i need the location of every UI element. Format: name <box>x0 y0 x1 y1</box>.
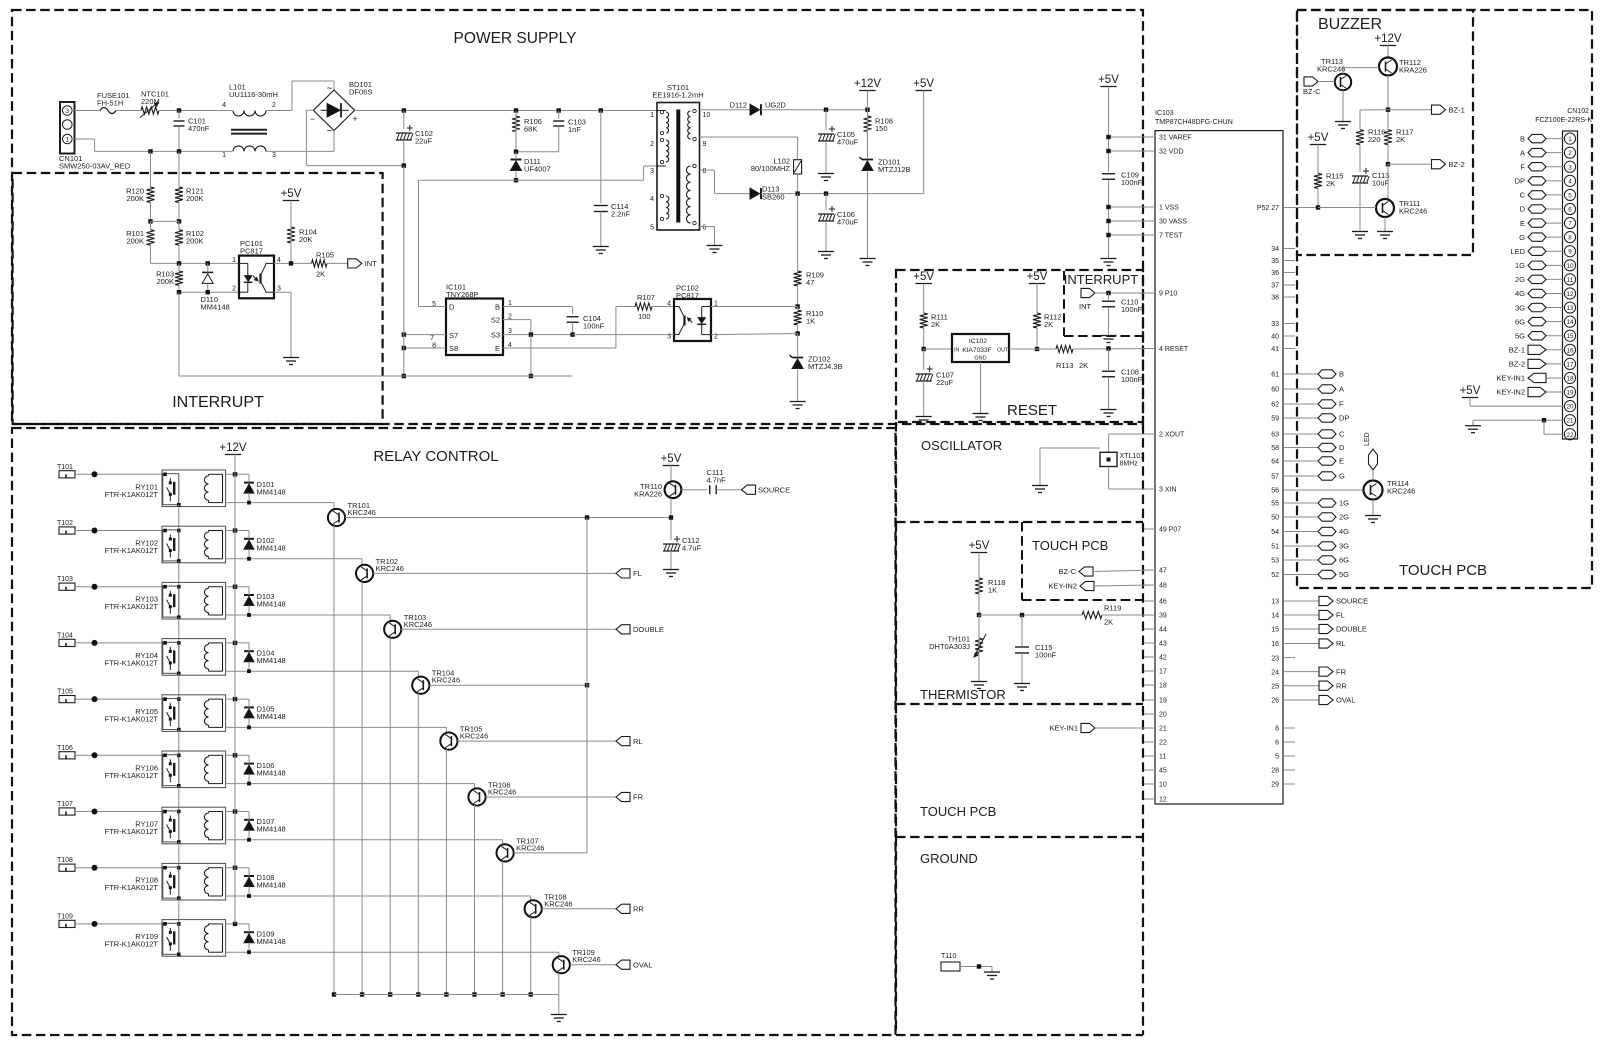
svg-text:IN: IN <box>954 348 959 354</box>
node C110 top <box>1106 291 1110 295</box>
svg-text:59: 59 <box>1271 416 1279 423</box>
svg-text:47: 47 <box>806 278 814 287</box>
svg-text:46: 46 <box>1159 599 1167 606</box>
svg-text:MM4148: MM4148 <box>257 656 286 665</box>
svg-text:OSCILLATOR: OSCILLATOR <box>921 438 1002 453</box>
wire relay chain T101 <box>178 505 180 531</box>
SOURCE flag <box>742 485 756 494</box>
svg-text:INTERRUPT: INTERRUPT <box>172 394 264 411</box>
resistor R116 <box>1356 130 1364 145</box>
svg-text:A: A <box>1520 148 1525 157</box>
node S7 <box>402 332 406 336</box>
svg-text:CN102: CN102 <box>1567 108 1589 115</box>
svg-text:40: 40 <box>1271 334 1279 341</box>
svg-text:2K: 2K <box>1079 361 1088 370</box>
svg-text:A: A <box>1339 385 1344 394</box>
svg-text:4G: 4G <box>1339 527 1349 536</box>
svg-text:100nF: 100nF <box>1035 651 1057 660</box>
svg-text:KRA226: KRA226 <box>634 490 662 499</box>
svg-text:FTR-K1AK012T: FTR-K1AK012T <box>105 490 159 499</box>
svg-text:39: 39 <box>1159 613 1167 620</box>
svg-text:3G: 3G <box>1515 303 1525 312</box>
svg-text:G: G <box>1339 472 1345 481</box>
wire R111 to IC102 <box>924 348 952 350</box>
wire ST101 pin6 to ground <box>700 226 715 228</box>
svg-text:56: 56 <box>1271 488 1279 495</box>
wire relay RY107 to +12V bus <box>226 811 249 813</box>
wire VAREF <box>1109 136 1156 138</box>
svg-text:57: 57 <box>1271 474 1279 481</box>
svg-text:150: 150 <box>875 124 888 133</box>
diode D108 <box>244 875 254 877</box>
svg-text:B: B <box>1339 370 1344 379</box>
node C106 top <box>824 191 828 195</box>
svg-text:37: 37 <box>1271 283 1279 290</box>
capacitor C107 <box>923 349 925 370</box>
svg-text:THERMISTOR: THERMISTOR <box>920 687 1006 702</box>
svg-text:MM4148: MM4148 <box>257 881 286 890</box>
wire TR111 base <box>1318 207 1376 209</box>
svg-text:T110: T110 <box>941 953 957 960</box>
svg-text:50: 50 <box>1271 515 1279 522</box>
RL flag <box>616 737 630 746</box>
KEY-IN1 flag <box>1081 723 1095 732</box>
node C115 top <box>1020 613 1024 617</box>
transistor TR109 KRC246 <box>553 956 570 973</box>
svg-text:+5V: +5V <box>1027 271 1048 283</box>
svg-text:10: 10 <box>1159 782 1167 789</box>
wire relay chain T103 <box>178 617 180 643</box>
svg-text:LED: LED <box>1510 247 1525 256</box>
resistor R115 <box>1314 173 1322 188</box>
ground CN102 <box>1472 420 1474 426</box>
svg-text:44: 44 <box>1159 627 1167 634</box>
capacitor C103 <box>558 111 560 120</box>
crystal XTL101 8MHz <box>1100 452 1117 466</box>
transistor TR113 KRC246 <box>1335 74 1351 90</box>
svg-text:1G: 1G <box>1339 499 1349 508</box>
interrupt section box <box>13 173 383 424</box>
touch pcb small box <box>1021 522 1023 600</box>
svg-text:RL: RL <box>633 737 643 746</box>
svg-text:2G: 2G <box>1515 275 1525 284</box>
ground section box <box>895 837 897 1035</box>
svg-text:RR: RR <box>633 905 644 914</box>
diode D105 <box>244 706 254 708</box>
svg-text:100: 100 <box>638 312 651 321</box>
node S2-S3 <box>529 332 533 336</box>
svg-text:−: − <box>310 114 315 124</box>
wire T105 to relay <box>75 698 162 700</box>
svg-text:T102: T102 <box>57 520 73 527</box>
svg-text:E: E <box>1520 219 1525 228</box>
CN102 pin 14 6G <box>1564 316 1575 327</box>
svg-text:KRC246: KRC246 <box>1317 65 1345 74</box>
svg-text:51: 51 <box>1271 544 1279 551</box>
svg-text:BZ-2: BZ-2 <box>1509 360 1525 369</box>
resistor R120 <box>150 151 152 187</box>
diode D109 <box>244 931 254 933</box>
ground C106 <box>825 246 827 252</box>
transistor TR102 KRC246 <box>356 565 373 582</box>
diode D103 <box>244 594 254 596</box>
svg-text:FTR-K1AK012T: FTR-K1AK012T <box>105 546 159 555</box>
svg-text:2: 2 <box>232 286 236 293</box>
node R120 top <box>148 149 152 153</box>
wire LED to TR114 <box>1372 470 1374 481</box>
wire TR103 base <box>401 628 616 630</box>
wire PC101 pin2 row <box>179 291 239 293</box>
wire bridge minus to return rail <box>306 109 313 111</box>
svg-text:2K: 2K <box>1044 320 1053 329</box>
svg-text:17: 17 <box>1159 669 1167 676</box>
wire TR111 emitter <box>1384 217 1386 226</box>
svg-text:FTR-K1AK012T: FTR-K1AK012T <box>105 602 159 611</box>
svg-text:FCZ100E-22RS-K: FCZ100E-22RS-K <box>1535 117 1592 124</box>
svg-text:FTR-K1AK012T: FTR-K1AK012T <box>105 827 159 836</box>
connector CN101 <box>60 102 75 154</box>
wire ST101 pin10 to D112 <box>700 109 751 111</box>
svg-text:G: G <box>1519 233 1525 242</box>
svg-text:32 VDD: 32 VDD <box>1159 149 1184 156</box>
svg-text:8MHz: 8MHz <box>1120 461 1139 468</box>
svg-text:FTR-K1AK012T: FTR-K1AK012T <box>105 939 159 948</box>
node D111 bottom <box>514 178 518 182</box>
svg-text:4: 4 <box>222 102 226 109</box>
svg-text:3: 3 <box>277 286 281 293</box>
svg-text:LED: LED <box>1364 432 1371 446</box>
node R121 top <box>177 149 181 153</box>
ground IC102 <box>980 408 982 414</box>
resistor R107 <box>616 306 635 308</box>
node R120-R101 <box>148 219 152 223</box>
wire fuse to NTC <box>116 110 141 112</box>
svg-text:S8: S8 <box>449 344 458 353</box>
svg-text:8: 8 <box>1275 726 1279 733</box>
svg-text:19: 19 <box>1159 698 1167 705</box>
svg-text:9: 9 <box>703 141 707 148</box>
svg-text:SMW250-03AV_RED: SMW250-03AV_RED <box>59 162 131 171</box>
svg-text:KRC246: KRC246 <box>432 676 460 685</box>
svg-text:IC102: IC102 <box>969 338 987 345</box>
CN102 pin 15 5G <box>1564 330 1575 341</box>
wire TR102 emitter <box>361 581 363 994</box>
svg-text:22uF: 22uF <box>415 137 433 146</box>
svg-text:24: 24 <box>1271 669 1279 676</box>
svg-text:5G: 5G <box>1515 331 1525 340</box>
ground TR114 <box>1372 510 1374 516</box>
svg-text:D: D <box>449 303 455 312</box>
svg-text:S3: S3 <box>491 331 500 340</box>
svg-text:21: 21 <box>1566 418 1574 425</box>
svg-text:~: ~ <box>327 126 333 137</box>
svg-text:10uF: 10uF <box>1372 179 1390 188</box>
svg-text:100nF: 100nF <box>583 322 605 331</box>
svg-text:FR: FR <box>1336 667 1347 676</box>
svg-text:48: 48 <box>1159 583 1167 590</box>
svg-text:B: B <box>1520 134 1525 143</box>
wire R105 to INT <box>327 262 348 264</box>
svg-text:9: 9 <box>1568 249 1572 256</box>
wire T103 to relay <box>75 586 162 588</box>
svg-text:3 XIN: 3 XIN <box>1159 487 1177 494</box>
resistor R102 <box>175 230 183 246</box>
node C101 top <box>177 108 181 112</box>
transistor TR111 KRC246 <box>1376 199 1394 217</box>
svg-text:KRC246: KRC246 <box>488 788 516 797</box>
CN102 pin 6 D <box>1564 203 1575 214</box>
wire interrupt to bottom rail <box>178 292 180 376</box>
node R111 bottom <box>922 347 926 351</box>
RR flag <box>616 904 630 913</box>
svg-text:26: 26 <box>1271 698 1279 705</box>
wire TR105 emitter <box>445 749 447 994</box>
svg-text:RR: RR <box>1336 681 1347 690</box>
svg-text:UU1116-30mH: UU1116-30mH <box>229 90 278 99</box>
svg-text:MM4148: MM4148 <box>257 600 286 609</box>
svg-text:F: F <box>1339 400 1344 409</box>
svg-text:+5V: +5V <box>661 453 682 465</box>
svg-text:FL: FL <box>1336 611 1345 620</box>
svg-text:38: 38 <box>1271 295 1279 302</box>
svg-text:1: 1 <box>1568 136 1572 143</box>
svg-text:2: 2 <box>650 141 654 148</box>
svg-text:DOUBLE: DOUBLE <box>633 625 664 634</box>
svg-text:RESET: RESET <box>1007 402 1057 419</box>
svg-text:T107: T107 <box>57 801 73 808</box>
node C103 top <box>557 108 561 112</box>
svg-text:53: 53 <box>1271 558 1279 565</box>
ground TH101 <box>978 676 980 682</box>
node R112 bottom <box>1035 347 1039 351</box>
svg-text:4: 4 <box>650 196 654 203</box>
wire R119 to IC103 <box>1102 614 1155 616</box>
svg-text:18: 18 <box>1159 683 1167 690</box>
svg-text:MM4148: MM4148 <box>201 303 230 312</box>
svg-text:42: 42 <box>1159 655 1167 662</box>
wire TR107 emitter <box>502 861 504 995</box>
capacitor C105 <box>825 110 827 130</box>
svg-text:1: 1 <box>65 137 69 144</box>
diode D110 <box>202 271 213 273</box>
wire KEY-IN2 to IC103 pin48 <box>1094 585 1155 586</box>
wire TR107 base <box>514 852 587 854</box>
touch pcb section box 2 <box>895 704 897 837</box>
resistor R104 <box>287 227 295 243</box>
svg-text:21: 21 <box>1159 726 1167 733</box>
node C105 top <box>824 108 828 112</box>
CN102 pin 21 <box>1564 415 1575 426</box>
interrupt sub box <box>1063 271 1065 336</box>
ground C114 <box>600 241 602 247</box>
svg-text:T103: T103 <box>57 576 73 583</box>
capacitor C102 <box>403 111 405 130</box>
svg-text:1G: 1G <box>1515 261 1525 270</box>
FL flag <box>616 569 630 578</box>
ground C115 <box>1021 678 1023 684</box>
transistor TR104 KRC246 <box>412 677 429 694</box>
CN102 pin 13 3G <box>1564 302 1575 313</box>
svg-text:C: C <box>1339 430 1345 439</box>
svg-text:220: 220 <box>1368 135 1381 144</box>
wire TR101 base <box>345 517 672 519</box>
svg-text:T105: T105 <box>57 689 73 696</box>
diode D102 <box>244 538 254 540</box>
svg-text:+5V: +5V <box>1098 74 1119 86</box>
svg-text:5G: 5G <box>1339 570 1349 579</box>
svg-text:E: E <box>495 344 500 353</box>
svg-text:3: 3 <box>65 108 69 115</box>
svg-text:3: 3 <box>650 168 654 175</box>
wire TR113 collector to TR112 base <box>1342 68 1344 74</box>
INT flag interrupt <box>348 259 362 268</box>
svg-text:S7: S7 <box>449 331 458 340</box>
DOUBLE flag <box>616 625 630 634</box>
node bottom rail mid <box>529 374 533 378</box>
svg-text:16: 16 <box>1566 347 1574 354</box>
wire IC101 S3 <box>503 334 573 336</box>
wire IC101 B to C104 <box>503 306 573 308</box>
wire bridge plus to main rail <box>355 109 357 111</box>
wire source drive bus <box>586 518 588 853</box>
CN102 pin 19 KEY-IN2 <box>1564 386 1575 397</box>
wire D103 to TR103 <box>226 614 391 616</box>
wire BZ-C to TR113 base <box>1318 81 1335 83</box>
wire D102 to TR102 <box>226 558 363 560</box>
node R102 bottom <box>177 261 181 265</box>
wire T102 to relay <box>75 530 162 532</box>
wire TR106 base <box>486 796 616 798</box>
svg-text:12: 12 <box>1566 291 1574 298</box>
svg-text:60: 60 <box>1271 387 1279 394</box>
wire IC101 E to R107 <box>503 347 616 349</box>
wire relay RY106 to +12V bus <box>226 754 249 756</box>
ground relay bus <box>334 994 559 996</box>
svg-text:470uF: 470uF <box>837 138 859 147</box>
CN102 pin 5 C <box>1564 189 1575 200</box>
CN102 pin 17 BZ-2 <box>1564 358 1575 369</box>
svg-text:22: 22 <box>1566 432 1574 439</box>
diode D111 <box>511 159 522 161</box>
wire relay chain T106 <box>178 786 180 812</box>
wire PC101 pin4 row <box>274 262 312 264</box>
svg-text:KIA7033F: KIA7033F <box>962 347 991 354</box>
node R110 bottom <box>795 331 799 335</box>
svg-text:4: 4 <box>1568 178 1572 185</box>
svg-text:12: 12 <box>1159 797 1167 804</box>
zener ZD102 <box>797 334 799 357</box>
svg-text:20: 20 <box>1566 404 1574 411</box>
wire PC102 pin1 <box>711 306 798 308</box>
svg-text:55: 55 <box>1271 501 1279 508</box>
wire relay chain T105 <box>178 730 180 756</box>
CN102 pin 7 E <box>1564 217 1575 228</box>
wire TR110 emitter <box>670 498 672 540</box>
thermistor section box <box>895 522 897 704</box>
wire T107 to relay <box>75 811 162 813</box>
svg-text:INTERRUPT: INTERRUPT <box>1064 272 1138 287</box>
svg-text:30 VASS: 30 VASS <box>1159 219 1187 226</box>
transistor TR108 KRC246 <box>525 900 542 917</box>
wire TR101 emitter <box>333 526 335 995</box>
resistor R119 <box>1082 611 1102 618</box>
svg-text:UG2D: UG2D <box>765 101 786 110</box>
wire feedback rail <box>419 179 644 181</box>
svg-text:58: 58 <box>1271 445 1279 452</box>
wire TR104 base <box>429 684 587 686</box>
CN102 pin 9 LED <box>1564 246 1575 257</box>
svg-text:RL: RL <box>1336 639 1346 648</box>
capacitor C108 <box>1108 349 1110 371</box>
wire T106 to relay <box>75 754 162 756</box>
resistor R118 <box>975 578 983 594</box>
svg-text:200K: 200K <box>126 194 144 203</box>
wire TR104 emitter <box>417 693 419 994</box>
wire BZ-C to IC103 pin47 <box>1093 570 1155 572</box>
svg-text:BZ-C: BZ-C <box>1059 567 1077 576</box>
capacitor C114 <box>600 111 602 204</box>
svg-text:TOUCH PCB: TOUCH PCB <box>1032 538 1108 553</box>
wire relay RY105 to +12V bus <box>226 698 249 700</box>
svg-text:BZ-C: BZ-C <box>1303 87 1321 96</box>
svg-text:D112: D112 <box>730 101 747 110</box>
svg-text:6: 6 <box>703 225 707 232</box>
wire D107 to TR107 <box>226 839 503 841</box>
wire NTC to C101 node <box>159 110 232 112</box>
svg-text:+: + <box>352 114 357 124</box>
svg-text:31 VAREF: 31 VAREF <box>1159 135 1192 142</box>
capacitor C113 <box>1359 145 1361 172</box>
svg-text:25: 25 <box>1271 683 1279 690</box>
wire relay RY103 to +12V bus <box>226 586 249 588</box>
svg-text:47: 47 <box>1159 568 1167 575</box>
svg-text:100nF: 100nF <box>1121 305 1143 314</box>
svg-text:INT: INT <box>1079 302 1092 311</box>
ground VSS rail <box>1108 253 1110 259</box>
svg-text:MM4148: MM4148 <box>257 712 286 721</box>
diode D106 <box>244 763 254 765</box>
ground ZD102 <box>797 396 799 402</box>
wire D101 to TR101 <box>226 502 334 504</box>
buzzer section box <box>1297 10 1473 255</box>
svg-text:DOUBLE: DOUBLE <box>1336 625 1367 634</box>
svg-text:1K: 1K <box>806 317 815 326</box>
svg-text:P52 27: P52 27 <box>1257 205 1279 212</box>
svg-text:BZ-2: BZ-2 <box>1449 160 1465 169</box>
svg-text:1K: 1K <box>988 586 997 595</box>
svg-text:FL: FL <box>633 569 642 578</box>
wire ST101 pin3 stub <box>657 165 666 167</box>
transistor TR114 KRC246 <box>1364 481 1383 500</box>
wire IC101 S2 <box>503 319 531 321</box>
svg-text:FTR-K1AK012T: FTR-K1AK012T <box>105 658 159 667</box>
svg-text:10: 10 <box>1566 263 1574 270</box>
node R106 top <box>514 108 518 112</box>
svg-text:6: 6 <box>1275 740 1279 747</box>
wire TR113 emitter <box>1342 90 1344 116</box>
svg-text:34: 34 <box>1271 246 1279 253</box>
svg-text:BZ-1: BZ-1 <box>1449 105 1465 114</box>
svg-text:470uF: 470uF <box>837 218 859 227</box>
wire relay chain T102 <box>178 561 180 587</box>
svg-text:6G: 6G <box>1339 556 1349 565</box>
ground TR111 <box>1384 226 1386 232</box>
svg-text:SOURCE: SOURCE <box>1336 597 1368 606</box>
svg-text:B: B <box>495 303 500 312</box>
svg-text:MTZJ4.3B: MTZJ4.3B <box>808 362 843 371</box>
capacitor C106 <box>825 194 827 210</box>
svg-text:KEY-IN1: KEY-IN1 <box>1050 724 1079 733</box>
